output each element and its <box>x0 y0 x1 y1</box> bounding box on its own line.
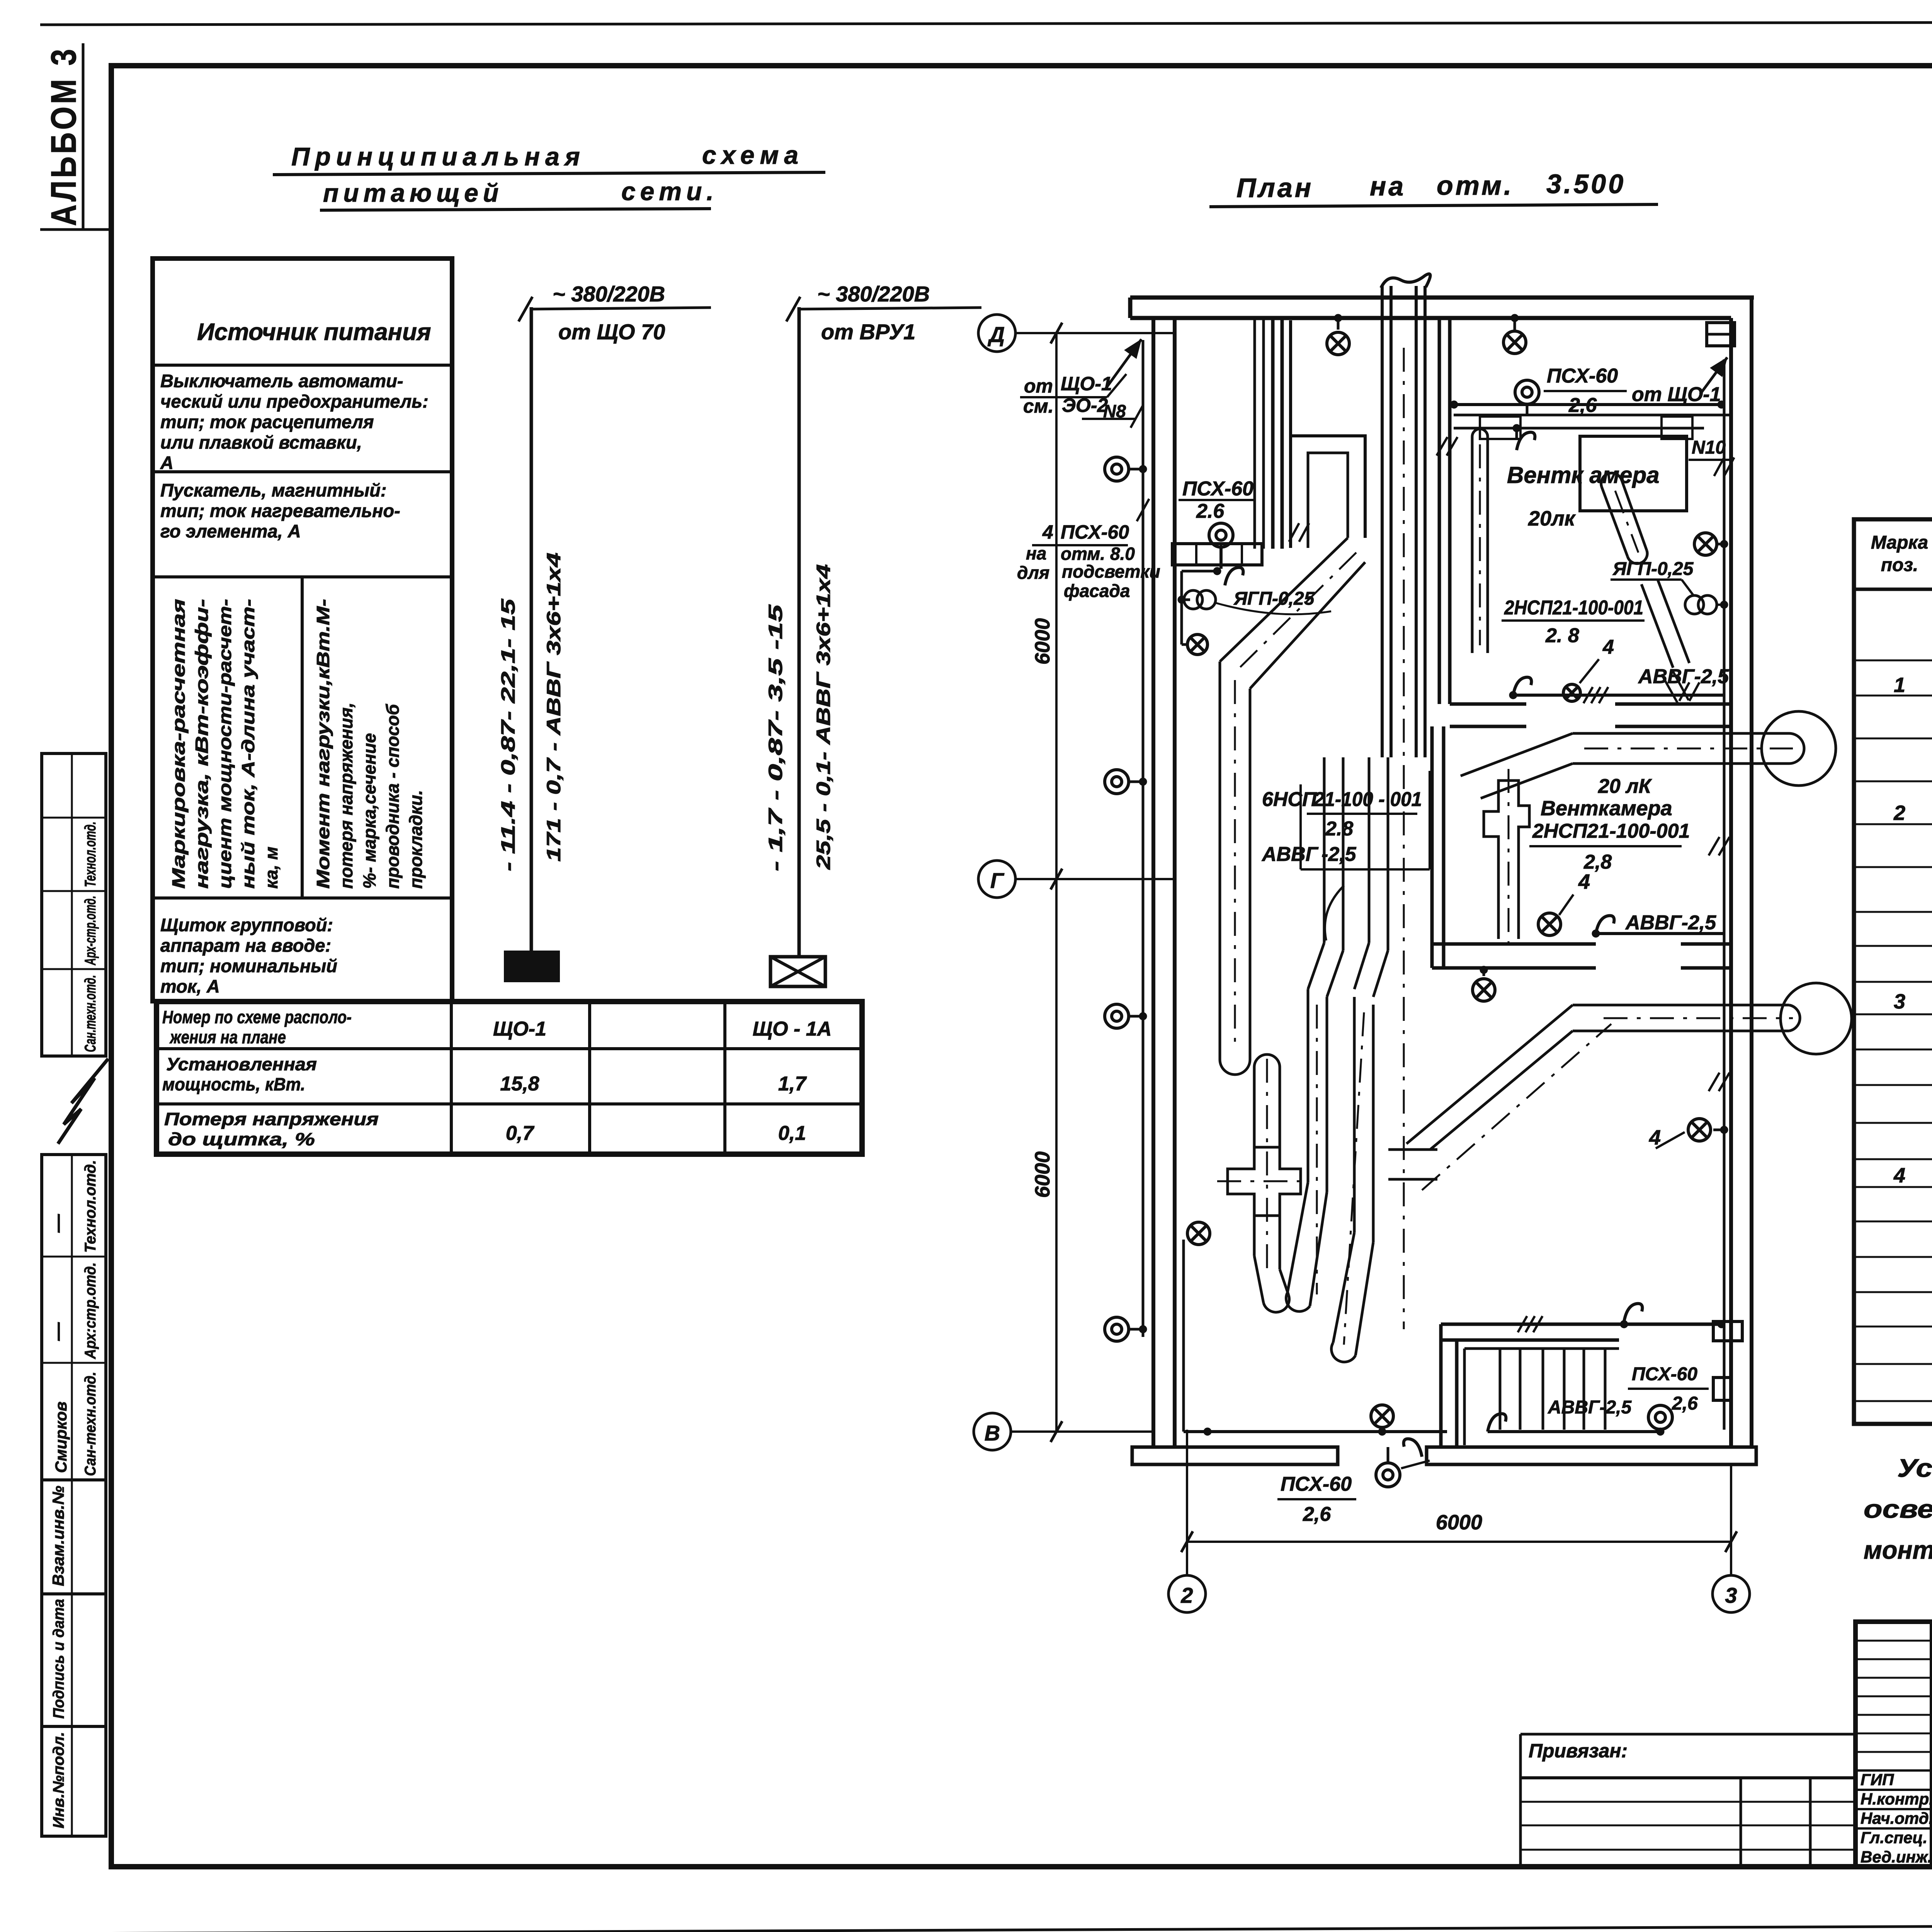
svg-text:Маркировка-расчетная: Маркировка-расчетная <box>168 599 189 889</box>
svg-text:потеря напряжения,: потеря напряжения, <box>336 702 356 889</box>
svg-text:го элемента, А: го элемента, А <box>160 521 301 541</box>
svg-text:6000: 6000 <box>1436 1511 1482 1534</box>
Z-duct diagonals <box>1220 538 1348 662</box>
svg-text:2,6: 2,6 <box>1303 1503 1331 1526</box>
svg-text:Взам.инв.№: Взам.инв.№ <box>49 1486 67 1586</box>
svg-text:ПСХ-60: ПСХ-60 <box>1632 1364 1697 1384</box>
svg-text:6000: 6000 <box>1031 618 1054 665</box>
svg-text:2. 8: 2. 8 <box>1545 624 1579 647</box>
svg-text:ЩО-1: ЩО-1 <box>493 1018 546 1040</box>
room1 wire down <box>1182 570 1217 573</box>
flexible connection curve <box>1325 886 1344 940</box>
plan: room1 П-duct outer <box>1291 436 1365 548</box>
svg-text:или плавкой вставки,: или плавкой вставки, <box>160 432 362 452</box>
svg-text:- 1,7 - 0,87- 3,5 -15: - 1,7 - 0,87- 3,5 -15 <box>765 604 786 871</box>
room1 ceiling lamp <box>1327 332 1349 355</box>
svg-text:ПСХ-60: ПСХ-60 <box>1547 365 1618 387</box>
vent room N10 wall light <box>1515 380 1539 404</box>
panel ЩО-1 symbol (filled box) <box>505 952 558 981</box>
svg-text:2,6: 2,6 <box>1568 394 1597 417</box>
svg-text:N10: N10 <box>1692 437 1726 458</box>
svg-text:АВВГ-2,5: АВВГ-2,5 <box>1548 1397 1632 1418</box>
svg-text:для: для <box>1017 563 1049 583</box>
svg-text:Арх-стр.отд.: Арх-стр.отд. <box>82 896 99 966</box>
svg-text:2,6: 2,6 <box>1672 1393 1698 1414</box>
svg-text:монтажа сантехнического о: монтажа сантехнического оборудования. <box>1864 1536 1932 1564</box>
plan: top exterior wall <box>1130 296 1754 300</box>
svg-text:2НСП21-100-001: 2НСП21-100-001 <box>1532 820 1690 842</box>
svg-text:2: 2 <box>1180 1583 1193 1607</box>
svg-text:Вед.инж.: Вед.инж. <box>1861 1848 1932 1866</box>
label box around 6НСП21 <box>1299 784 1302 869</box>
svg-text:Привязан:: Привязан: <box>1529 1740 1628 1762</box>
stamp box Инв.№подл. <box>42 1726 106 1836</box>
svg-text:4: 4 <box>1042 521 1053 543</box>
column split in tall row <box>301 577 304 898</box>
svg-text:отм.: отм. <box>1437 170 1514 201</box>
album label underline <box>82 43 85 230</box>
svg-text:отм. 8.0: отм. 8.0 <box>1061 544 1135 564</box>
axis 2 <box>1168 1575 1206 1612</box>
svg-text:План: План <box>1236 173 1313 203</box>
vent room N10 lamp right <box>1694 533 1717 555</box>
supply-network schematic legend table <box>153 259 452 1001</box>
title block left stamp verticals <box>1930 1622 1932 1867</box>
svg-text:Инв.№подл.: Инв.№подл. <box>50 1732 67 1828</box>
left margin approval stamp (lower) <box>42 1155 106 1480</box>
feeder line 1 (from ЩО 70) <box>530 307 533 957</box>
svg-text:АЛЬБОМ 3: АЛЬБОМ 3 <box>44 46 83 226</box>
svg-text:Щиток групповой:: Щиток групповой: <box>160 915 333 935</box>
plan: stair treads <box>1464 1347 1619 1350</box>
lamp under leader <box>1563 684 1580 701</box>
svg-text:циент мощности-расчет-: циент мощности-расчет- <box>215 599 235 889</box>
cross duct element <box>1228 1147 1301 1216</box>
plan: room2 left wall <box>1430 726 1434 968</box>
svg-text:ка, м: ка, м <box>261 847 281 889</box>
svg-text:от ЩО-1: от ЩО-1 <box>1632 383 1721 406</box>
привязан box <box>1520 1733 1854 1736</box>
svg-text:2.6: 2.6 <box>1196 500 1225 522</box>
title block frame <box>1855 1622 1932 1867</box>
duct C pair (middle verticals with jog) <box>1323 757 1326 943</box>
svg-text:ЯГП-0,25: ЯГП-0,25 <box>1233 588 1315 609</box>
vertical dimension line <box>1055 333 1058 1432</box>
vent unit room2 (vertical duct w/ bumps) <box>1484 781 1529 939</box>
svg-text:- 11.4 - 0,87- 22,1- 15: - 11.4 - 0,87- 22,1- 15 <box>497 598 519 871</box>
svg-text:Технол.отд.: Технол.отд. <box>82 821 99 887</box>
trombone arm 2 diagonal <box>1406 1005 1573 1144</box>
svg-text:Арх:стр.отд.: Арх:стр.отд. <box>82 1262 99 1359</box>
plan: interior partition left room <box>1271 318 1275 549</box>
svg-text:аппарат на вводе:: аппарат на вводе: <box>160 935 331 956</box>
stamp box Взам.инв.№ <box>42 1480 106 1594</box>
plan: right wall wire riser <box>1723 359 1726 1430</box>
trombone arm 1 (upper) <box>1461 733 1573 776</box>
svg-text:сети.: сети. <box>621 177 718 206</box>
vent room N10 bottom wire <box>1513 694 1724 697</box>
facade wall light 1 <box>1105 457 1129 481</box>
svg-text:ЯГП-0,25: ЯГП-0,25 <box>1612 559 1694 579</box>
title block role rows <box>1855 1769 1932 1772</box>
svg-text:нагрузка, кВт-коэффи-: нагрузка, кВт-коэффи- <box>192 599 212 889</box>
svg-text:1: 1 <box>1894 673 1905 697</box>
svg-text:20 лК: 20 лК <box>1598 775 1652 798</box>
break marks on right wall riser <box>1714 457 1724 476</box>
trombone arm 2 (lower) <box>1573 1004 1789 1007</box>
vent room N10 top wire <box>1453 403 1724 406</box>
svg-text:~ 380/220В: ~ 380/220В <box>553 282 665 306</box>
svg-text:ный ток, А-длина участ-: ный ток, А-длина участ- <box>238 599 258 889</box>
plan: stair top-right wall notch <box>1713 1321 1742 1341</box>
svg-text:проводника - способ: проводника - способ <box>383 704 403 889</box>
svg-text:15,8: 15,8 <box>500 1073 539 1095</box>
signature squiggle <box>58 1059 108 1144</box>
svg-text:4: 4 <box>1578 870 1590 893</box>
room1 hook <box>1225 568 1243 585</box>
svg-text:171 - 0,7 - АВВГ 3х6+1х4: 171 - 0,7 - АВВГ 3х6+1х4 <box>543 553 565 862</box>
svg-text:3: 3 <box>1894 990 1905 1013</box>
svg-text:ток, А: ток, А <box>160 976 220 997</box>
svg-text:Марка: Марка <box>1871 532 1928 553</box>
svg-text:1,7: 1,7 <box>778 1073 807 1095</box>
svg-text:ЩО - 1А: ЩО - 1А <box>753 1018 832 1040</box>
feeder line 2 (from ВРУ1) <box>798 307 801 957</box>
facade wall light 4 <box>1105 1317 1129 1341</box>
vent room N10 narrow duct <box>1471 437 1474 653</box>
title block left stamp thin rows <box>1855 1640 1932 1642</box>
room1 ЯГП symbol <box>1184 590 1216 609</box>
svg-text:АВВГ-2,5: АВВГ-2,5 <box>1625 912 1716 934</box>
svg-text:6НСП: 6НСП <box>1262 788 1317 811</box>
plan: vent room N10 bottom wall <box>1450 702 1526 706</box>
parts list table <box>1854 519 1932 1424</box>
svg-text:—: — <box>48 1322 68 1341</box>
plan: partition right of shaft (vent room N10 left wall) <box>1438 318 1441 704</box>
svg-text:тип; ток расцепителя: тип; ток расцепителя <box>160 412 374 432</box>
slanted duct from vent rect <box>1602 487 1628 556</box>
stairwell wall light <box>1648 1405 1672 1429</box>
svg-text:схема: схема <box>702 141 804 169</box>
svg-text:В: В <box>985 1421 1000 1445</box>
plan: shaft wavy top <box>1381 274 1430 288</box>
svg-text:Венткамера: Венткамера <box>1541 797 1672 820</box>
svg-text:2: 2 <box>1893 801 1905 825</box>
axis В <box>974 1413 1011 1450</box>
svg-text:Номер по схеме располо-: Номер по схеме располо- <box>162 1007 352 1027</box>
sheet top edge line <box>40 22 1932 25</box>
stairwell top hook <box>1624 1304 1642 1321</box>
svg-text:Источник питания: Источник питания <box>197 319 431 345</box>
svg-text:20лк: 20лк <box>1528 507 1576 530</box>
svg-text:ПСХ-60: ПСХ-60 <box>1061 521 1129 543</box>
axis Д <box>978 315 1015 352</box>
svg-text:Гл.спец.: Гл.спец. <box>1861 1828 1927 1847</box>
svg-text:-2,5: -2,5 <box>1321 843 1357 866</box>
svg-text:Г: Г <box>990 868 1005 893</box>
svg-text:Технол.отд.: Технол.отд. <box>82 1160 99 1253</box>
svg-text:Смирков: Смирков <box>52 1401 70 1473</box>
svg-text:до щитка, %: до щитка, % <box>168 1129 315 1149</box>
svg-text:от ВРУ1: от ВРУ1 <box>821 320 915 344</box>
svg-text:Выключатель автомати-: Выключатель автомати- <box>160 371 403 391</box>
axis 3 <box>1713 1575 1750 1612</box>
svg-text:Подпись и дата: Подпись и дата <box>50 1599 67 1719</box>
bottom door lamp <box>1371 1405 1393 1427</box>
room1 lower lamp <box>1187 634 1207 655</box>
lamp below room2 <box>1473 979 1495 1001</box>
svg-text:питающей: питающей <box>323 179 503 207</box>
svg-text:на: на <box>1026 543 1046 563</box>
svg-text:прокладки.: прокладки. <box>406 790 426 889</box>
horizontal dimension line <box>1187 1541 1731 1543</box>
svg-text:мощность, кВт.: мощность, кВт. <box>162 1074 305 1094</box>
facade wall light 3 <box>1105 1004 1129 1028</box>
svg-text:Нач.отд.: Нач.отд. <box>1861 1809 1932 1827</box>
schematic results mini-table <box>156 1002 862 1154</box>
svg-text:Принципиальная: Принципиальная <box>291 142 585 171</box>
svg-text:поз.: поз. <box>1881 555 1918 575</box>
big hall left lamp + riser <box>1187 1222 1210 1245</box>
svg-text:6000: 6000 <box>1031 1151 1054 1198</box>
svg-text:Пускатель, магнитный:: Пускатель, магнитный: <box>160 480 387 500</box>
svg-text:Н.контр.: Н.контр. <box>1861 1790 1932 1808</box>
lamp above shaft top wall <box>1503 331 1526 354</box>
svg-text:4: 4 <box>1893 1164 1905 1187</box>
svg-text:освещения в венткамере вы: освещения в венткамере выполнить после <box>1864 1495 1932 1523</box>
svg-text:0,7: 0,7 <box>506 1122 534 1145</box>
sheet bottom edge line <box>62 1923 1932 1932</box>
svg-text:фасада: фасада <box>1064 581 1130 601</box>
Z-duct lower leg (rounded bottom) <box>1219 662 1221 1060</box>
svg-text:2.8: 2.8 <box>1325 818 1353 840</box>
svg-text:Сан.техн.отд.: Сан.техн.отд. <box>82 975 99 1052</box>
plan: right exterior wall <box>1729 318 1733 1447</box>
svg-text:Установленная: Установленная <box>166 1054 317 1074</box>
svg-text:~ 380/220В: ~ 380/220В <box>817 282 930 306</box>
axis Г <box>978 861 1015 898</box>
svg-text:на: на <box>1370 171 1406 201</box>
svg-text:Сан-техн.отд.: Сан-техн.отд. <box>82 1372 99 1476</box>
svg-text:ЩО-1: ЩО-1 <box>1061 373 1112 395</box>
plan: room1 duct band <box>1172 544 1262 565</box>
plan: bottom wall right segment <box>1427 1447 1756 1464</box>
plan: room1 П-duct inner <box>1308 453 1348 548</box>
svg-text:подсветки: подсветки <box>1062 561 1160 582</box>
svg-text:ЭО-2: ЭО-2 <box>1062 395 1108 416</box>
plan: stairwell left wall <box>1439 1324 1443 1447</box>
panel ЩО-1А symbol (crossed box) <box>770 957 825 986</box>
svg-text:АВВГ: АВВГ <box>1261 843 1319 866</box>
svg-text:%- марка,сечение: %- марка,сечение <box>359 733 379 889</box>
svg-text:ГИП: ГИП <box>1861 1770 1894 1789</box>
svg-text:Установку светильников и п: Установку светильников и прокладку сети <box>1897 1454 1932 1482</box>
svg-text:4: 4 <box>1602 636 1614 658</box>
svg-text:3: 3 <box>1725 1583 1737 1607</box>
plan: bottom wall left segment <box>1132 1447 1338 1464</box>
svg-text:от ЩО 70: от ЩО 70 <box>558 320 665 344</box>
room2 hook + wire <box>1596 916 1614 934</box>
plan: room2 bottom wall <box>1432 942 1596 946</box>
bottom wire to door <box>1184 1430 1447 1433</box>
plan: left exterior wall <box>1151 318 1155 1447</box>
left margin approval stamp (upper) <box>42 753 106 1056</box>
svg-text:Вентк амера: Вентк амера <box>1507 462 1660 488</box>
svg-text:А: А <box>160 452 173 473</box>
plan: central shaft walls <box>1381 286 1384 757</box>
vent equipment rectangle N10 <box>1580 436 1687 511</box>
facade lighting riser wire <box>1142 340 1145 1337</box>
svg-text:Д: Д <box>988 322 1005 347</box>
svg-text:21-100 - 001: 21-100 - 001 <box>1313 788 1422 811</box>
svg-text:ПСХ-60: ПСХ-60 <box>1281 1473 1352 1495</box>
stamp box Подпись и дата <box>42 1594 106 1726</box>
plan: top-right niche <box>1707 323 1735 346</box>
svg-text:тип; ток нагревательно-: тип; ток нагревательно- <box>160 500 400 521</box>
plan: stairwell top wall <box>1441 1323 1724 1326</box>
svg-text:3.500: 3.500 <box>1546 169 1626 199</box>
svg-text:жения на плане: жения на плане <box>169 1027 286 1047</box>
svg-text:ПСХ-60: ПСХ-60 <box>1182 478 1253 500</box>
vent room N10 hook at top <box>1517 432 1535 450</box>
duct B lower diagonal w/ cap <box>1253 1216 1256 1256</box>
album label bottom tick <box>40 228 110 231</box>
plan: shaft centerline <box>1403 348 1405 1329</box>
svg-text:от: от <box>1024 375 1053 397</box>
slanted duct lower segment <box>1641 584 1673 668</box>
svg-text:ческий или предохранитель:: ческий или предохранитель: <box>160 391 429 412</box>
svg-text:25,5 - 0,1- АВВГ 3х6+1х4: 25,5 - 0,1- АВВГ 3х6+1х4 <box>813 564 834 870</box>
room1 wall light <box>1209 523 1233 547</box>
svg-text:—: — <box>48 1214 68 1233</box>
vent room N10 duct band <box>1454 414 1731 417</box>
duct B (rounded top, to cross) <box>1254 1054 1280 1067</box>
svg-text:2НСП21-100-001: 2НСП21-100-001 <box>1504 597 1643 619</box>
svg-text:см.: см. <box>1023 395 1054 417</box>
duct C diagonals to rounded caps <box>1287 1182 1308 1293</box>
facade wall light 2 <box>1105 770 1129 794</box>
plan: stair right wall step <box>1713 1378 1731 1400</box>
svg-text:АВВГ-2,5: АВВГ-2,5 <box>1638 665 1729 688</box>
svg-text:тип; номинальный: тип; номинальный <box>160 956 337 976</box>
svg-text:Потеря напряжения: Потеря напряжения <box>164 1109 379 1129</box>
stairwell wire <box>1488 1430 1660 1433</box>
svg-text:0,1: 0,1 <box>778 1122 806 1145</box>
svg-text:Момент нагрузки,кВт.М-: Момент нагрузки,кВт.М- <box>313 599 333 889</box>
